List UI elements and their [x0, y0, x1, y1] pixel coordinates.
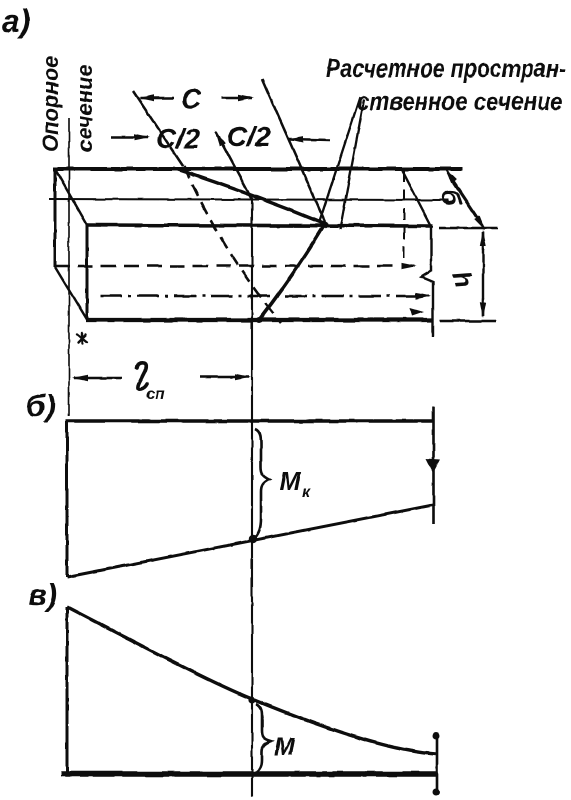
- beam left front vertical edge: [86, 225, 89, 320]
- beam front top edge extension: [439, 227, 497, 230]
- beam left end bottom diagonal: [55, 267, 87, 320]
- diagram V moment curve: [67, 607, 436, 754]
- dimension C/2 right arrow: [289, 139, 330, 140]
- svg-text:б): б): [26, 388, 56, 423]
- svg-text:сп: сп: [146, 386, 165, 403]
- beam top face mid line: [49, 199, 449, 200]
- dimension C/2 left arrow: [111, 136, 148, 139]
- beam bottom edge extension: [440, 320, 496, 323]
- leader line 1 to spatial section: [319, 97, 360, 223]
- dimension C arrows: [140, 97, 174, 100]
- svg-text:ственное сечение: ственное сечение: [357, 86, 563, 116]
- svg-text:М: М: [279, 466, 302, 496]
- svg-text:к: к: [302, 484, 311, 501]
- design section vertical line: [251, 199, 253, 797]
- beam center dash-dot line: [100, 295, 420, 298]
- svg-text:М: М: [274, 733, 296, 761]
- asterisk mark: [77, 333, 87, 343]
- svg-text:в): в): [28, 577, 57, 612]
- extension line 2 (slanted, right): [262, 79, 325, 222]
- beam hidden bottom back edge (dashed): [55, 265, 400, 268]
- beam back top edge: [53, 167, 463, 171]
- svg-text:C/2: C/2: [227, 121, 271, 152]
- beam left back vertical edge: [54, 169, 57, 267]
- spatial section crack on top face: [173, 168, 325, 224]
- diagram B right terminator: [432, 407, 435, 524]
- beam front top edge: [86, 225, 433, 226]
- svg-text:Расчетное простран-: Расчетное простран-: [326, 53, 566, 83]
- extension line 1 (slanted, left): [133, 91, 183, 166]
- beam front bottom edge: [86, 318, 433, 322]
- beam break diagonal on top face: [402, 170, 431, 226]
- label l_sp: [137, 363, 165, 403]
- node at crack bottom: [256, 317, 262, 323]
- dimension h line: [482, 232, 484, 250]
- dimension b line: [450, 177, 480, 222]
- support section vertical line: [68, 118, 70, 416]
- diagram B left edge: [66, 421, 69, 577]
- label Опорное сечение (rotated): [38, 56, 97, 152]
- dimension l_sp right arrow: [200, 376, 249, 379]
- diagram V left edge: [66, 607, 69, 776]
- svg-text:а): а): [2, 3, 30, 39]
- brace Mk: [255, 429, 269, 538]
- diagram B small arrow on right line: [426, 459, 440, 473]
- spatial section crack on front face: [259, 224, 325, 320]
- diagram V right terminator: [436, 733, 439, 795]
- svg-text:сечение: сечение: [72, 64, 97, 152]
- mid slanted arrow to section line: [216, 132, 252, 199]
- diagram V bottom line: [61, 771, 438, 777]
- arrow at end of center line: [416, 295, 429, 297]
- label Расчетное пространственное сечение: [326, 53, 566, 116]
- spatial section hidden crack (dashed): [184, 166, 281, 323]
- svg-text:C/2: C/2: [156, 123, 200, 154]
- arrow at end of hidden edge: [403, 265, 415, 267]
- node at section vertex: [322, 222, 329, 229]
- svg-text:C: C: [181, 83, 202, 114]
- beam left end top diagonal: [55, 169, 87, 225]
- beam front right edge with break jog: [421, 226, 433, 337]
- brace M: [256, 704, 271, 772]
- leader line 2 to spatial section: [340, 100, 364, 229]
- label Mk: [279, 466, 311, 501]
- diagram B top line: [66, 419, 434, 422]
- node at Mk: [249, 535, 257, 543]
- dimension l_sp left arrow: [74, 377, 122, 380]
- small break arrow: [410, 308, 424, 316]
- diagram B bottom diagonal: [67, 505, 433, 577]
- node at M: [248, 696, 255, 703]
- svg-text:Опорное: Опорное: [38, 56, 63, 152]
- beam hidden back right vertical edge (dashed): [403, 170, 405, 264]
